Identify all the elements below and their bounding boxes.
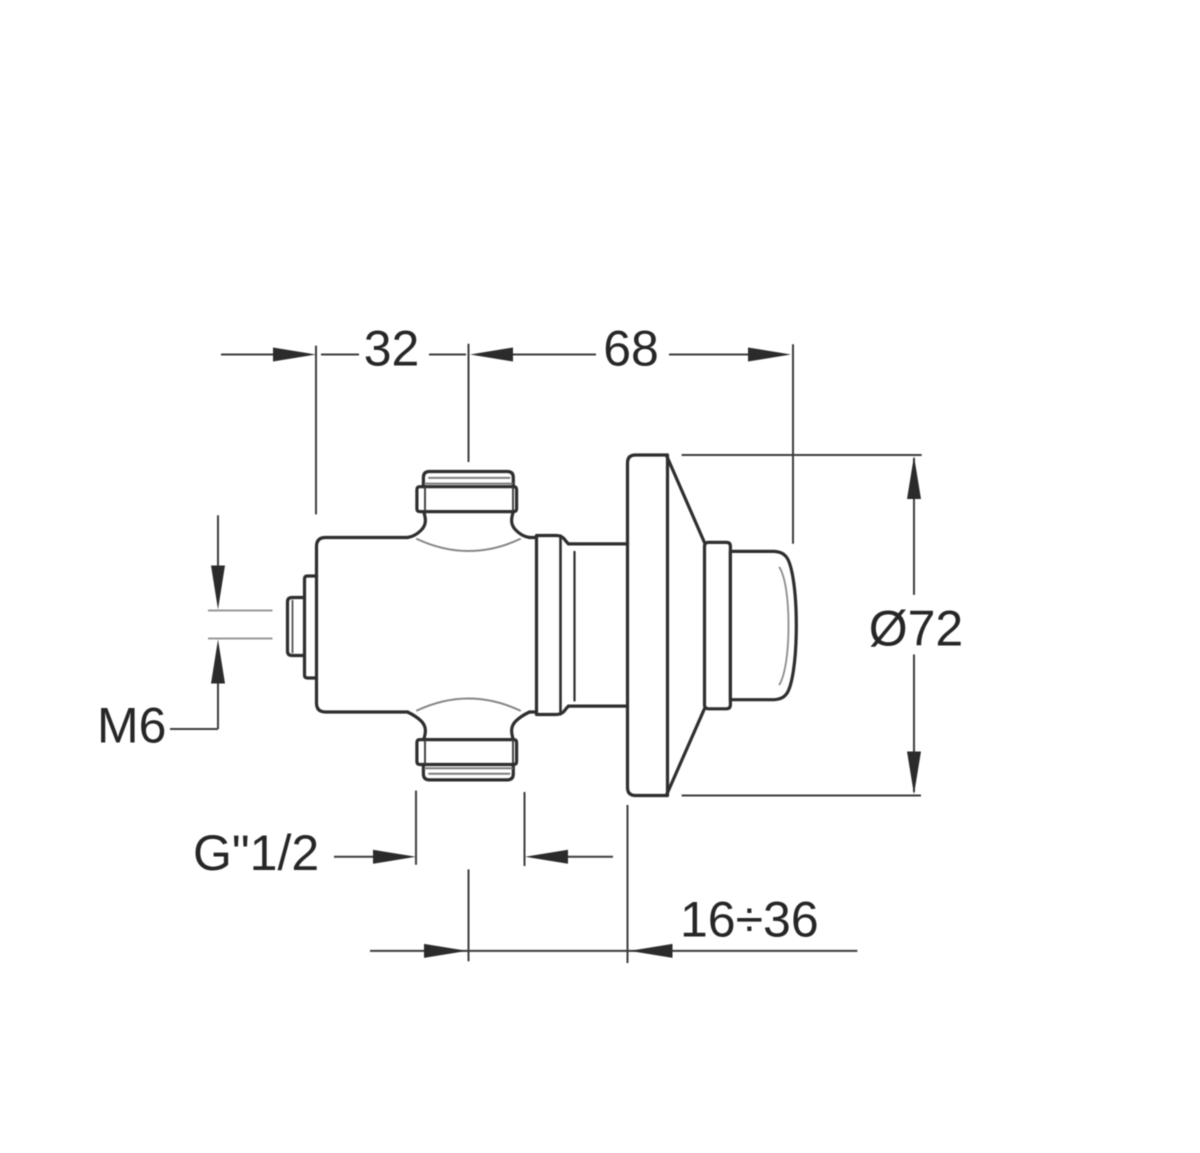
dia72 dim line upper [913,458,915,595]
bottom port cap line 2 [429,773,510,775]
arrow G1/2 right [373,850,416,864]
dia72 bottom extension [682,795,921,797]
mounting ring [705,542,731,708]
dia72 dim line lower [913,655,915,793]
dim line 32 segment b [429,354,466,356]
M6 dim line lower [217,681,219,729]
M6 leader elbow [170,728,218,730]
bottom port neck right [512,712,530,740]
push button [730,551,796,699]
dim line 68 segment a [510,354,596,356]
M6 diameter line lower [208,638,273,640]
dim 32-68 tail line [221,354,276,356]
bottom collar chamfer left [424,741,426,764]
extension line left (body) [315,346,317,515]
svg-text:Ø72: Ø72 [869,601,964,657]
dia72 top extension [682,454,922,456]
svg-text:16÷36: 16÷36 [680,892,819,948]
dim line 68 segment b [669,354,748,356]
top port collar [417,487,517,512]
bottom port neck left [408,712,426,740]
flange cone top slant [667,456,705,543]
bottom port cap line 1 [425,767,512,769]
top port cap line 2 [425,483,512,485]
sleeve section bottom edge [569,704,628,707]
G1/2 dim tail right [563,856,613,858]
dim line 16-36 [370,950,857,952]
M6 diameter line upper [208,610,273,612]
center line top port [468,344,470,462]
G1/2 extension left [415,791,417,865]
svg-text:32: 32 [364,321,420,377]
flange cone bottom slant [667,709,705,795]
sleeve contour line [573,552,575,701]
svg-text:G"1/2: G"1/2 [193,825,319,881]
arrow 32 left [273,348,316,362]
top port cap line 1 [429,477,510,479]
top port fillet arc [417,539,520,551]
top port neck left [408,512,426,538]
stud chamfer line [292,601,294,653]
arrow G1/2 left [525,850,568,864]
flange plate [628,455,668,796]
bottom port collar [417,740,517,765]
flange bottom extension [627,805,629,963]
bottom collar chamfer right [512,741,514,764]
G1/2 extension right [524,792,526,866]
top port cap [423,472,513,487]
bottom port fillet arc [417,699,520,711]
arrow dia72 up [907,456,921,499]
sleeve section top edge [569,542,628,545]
collar ring 1 [537,536,569,715]
M6 stud step [305,576,317,678]
extension line right (68) [792,344,794,544]
svg-text:68: 68 [603,321,659,377]
arrow 16-36 right [424,944,467,958]
button dome contour arc [780,568,789,685]
arrow 32 right / 68 left [470,348,513,362]
bottom center line [468,869,470,961]
M6 stud [288,598,305,656]
top collar chamfer left [424,488,426,511]
bottom port cap [423,765,513,780]
arrow 68 right [748,348,791,362]
top collar chamfer right [512,488,514,511]
collar ring 1 right edge [559,536,562,715]
arrow 16-36 left [630,944,673,958]
arrow M6 down [211,566,225,610]
M6 dim line upper [217,515,219,568]
valve body [317,538,537,713]
arrow dia72 down [907,752,921,795]
svg-text:M6: M6 [97,697,166,753]
dim line 32 segment a [321,354,359,356]
arrow M6 up [211,640,225,684]
G1/2 leader line [334,856,378,858]
top port neck right [512,512,530,538]
